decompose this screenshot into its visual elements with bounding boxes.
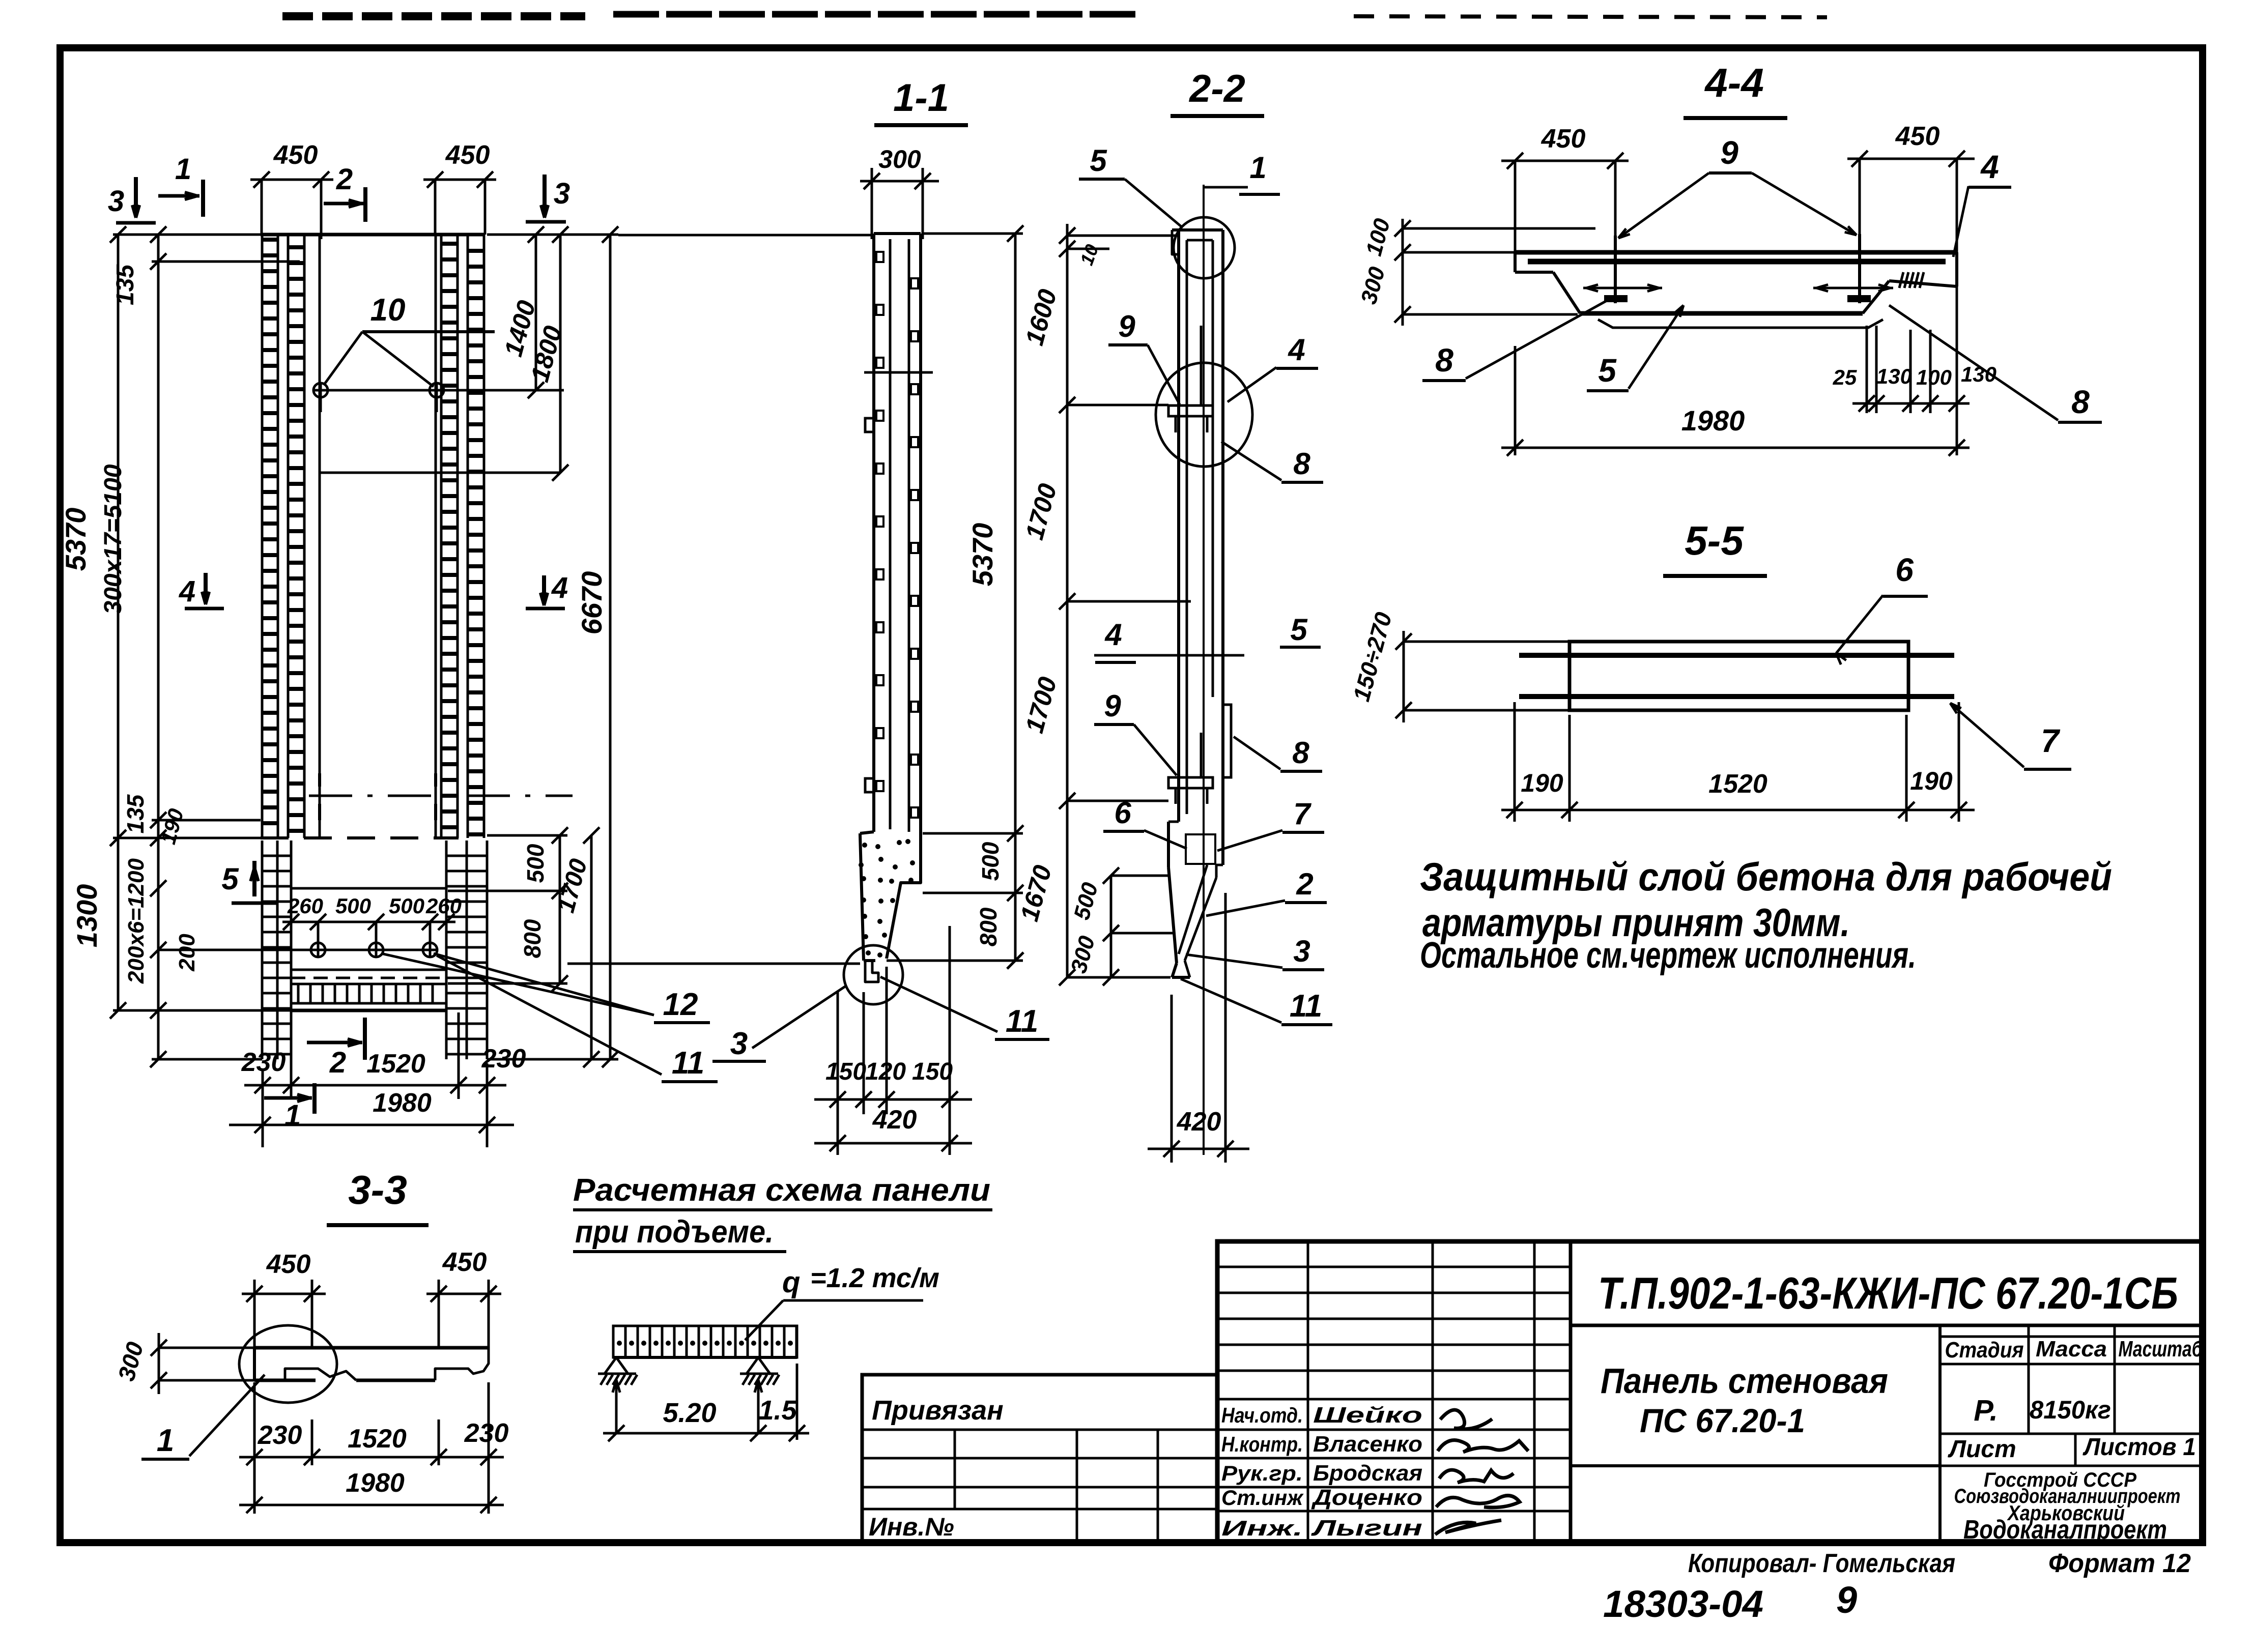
svg-text:5-5: 5-5: [1685, 518, 1744, 563]
svg-text:1520: 1520: [348, 1424, 407, 1454]
svg-text:Инв.№: Инв.№: [869, 1513, 954, 1541]
svg-text:2-2: 2-2: [1188, 67, 1245, 110]
section 4-4: dim 450 right: [1847, 122, 1975, 252]
svg-text:2: 2: [329, 1046, 346, 1079]
svg-text:230: 230: [464, 1418, 509, 1448]
section 3-3: dim 450 left: [242, 1250, 326, 1348]
section 2-2: mid section marks 4/5: [1094, 613, 1321, 662]
svg-text:500: 500: [522, 844, 549, 883]
lifting scheme: load label q=1.2: [745, 1263, 939, 1340]
front view: right dim 500/800: [448, 827, 568, 992]
svg-text:=1.2 тс/м: =1.2 тс/м: [810, 1263, 939, 1293]
svg-text:11: 11: [672, 1046, 704, 1081]
svg-text:5: 5: [221, 862, 239, 896]
svg-text:800: 800: [975, 907, 1002, 946]
svg-text:q: q: [782, 1266, 800, 1299]
title block: stadia values: [1974, 1394, 2111, 1427]
front view: top edge: [261, 233, 485, 237]
section 2-2: right rib bar pos.8: [1223, 705, 1231, 777]
front view: section mark 2 bottom: [307, 1018, 365, 1079]
svg-text:Масштаб: Масштаб: [2119, 1337, 2203, 1361]
svg-text:Привязан: Привязан: [872, 1395, 1004, 1426]
svg-text:230: 230: [241, 1048, 286, 1077]
section 1-1: strip outline: [874, 234, 921, 833]
section 3-3: bar section: [254, 1348, 489, 1380]
svg-text:3: 3: [730, 1026, 748, 1061]
svg-text:4: 4: [1104, 618, 1122, 652]
svg-text:Т.П.902-1-63-КЖИ-ПС 67.20-1СБ: Т.П.902-1-63-КЖИ-ПС 67.20-1СБ: [1598, 1268, 2178, 1318]
front view: right dim 1700: [553, 827, 600, 1067]
svg-text:1: 1: [1249, 151, 1266, 185]
svg-text:Власенко: Власенко: [1313, 1432, 1422, 1457]
section 2-2: label 7 leader: [1217, 797, 1324, 851]
svg-text:100: 100: [1916, 365, 1952, 389]
section 4-4: label 4 leader: [1953, 149, 2011, 257]
lifting scheme: distributed load strip: [613, 1326, 797, 1357]
svg-text:3: 3: [108, 185, 124, 218]
section 2-2: upper detail circle: [1156, 363, 1252, 467]
section 3-3: detail circle: [239, 1325, 337, 1403]
section 3-3: bottom dims 230/1520/230: [239, 1382, 508, 1514]
svg-text:Панель стеновая: Панель стеновая: [1601, 1361, 1888, 1401]
svg-text:25: 25: [1833, 365, 1857, 389]
svg-text:11: 11: [1006, 1004, 1038, 1039]
lifting scheme: dim 5.20/1.5: [603, 1364, 809, 1441]
section 2-2: label 2 leader: [1206, 867, 1327, 916]
svg-text:120: 120: [865, 1058, 906, 1085]
svg-text:1: 1: [175, 153, 191, 186]
svg-text:12: 12: [663, 987, 698, 1022]
section 4-4: dim 1980: [1501, 326, 1970, 456]
lifting scheme: right support: [740, 1357, 779, 1385]
section 2-2: inner dim 500/300: [1066, 867, 1173, 986]
front view: lifting loops pos.10: [313, 383, 564, 412]
section 5-5: label 6 leader: [1836, 552, 1928, 664]
section 5-5: bottom dims 190/1520/190: [1501, 702, 1975, 822]
svg-text:5: 5: [1090, 143, 1107, 178]
svg-text:4-4: 4-4: [1704, 60, 1764, 105]
section 2-2: label 1 top: [1204, 151, 1280, 194]
svg-text:300: 300: [878, 145, 921, 173]
svg-text:Стадия: Стадия: [1945, 1338, 2024, 1363]
section 1-1: dim 5370: [923, 225, 1023, 969]
title block: signature rows: [1217, 1399, 1571, 1511]
svg-text:Листов 1: Листов 1: [2082, 1434, 2196, 1461]
front view: bottom left brick strip: [262, 841, 291, 1059]
svg-text:18303-04: 18303-04: [1603, 1583, 1763, 1625]
svg-text:500: 500: [389, 894, 424, 918]
svg-text:450: 450: [1541, 124, 1586, 154]
svg-text:2: 2: [1296, 867, 1313, 901]
svg-text:300x17=5100: 300x17=5100: [100, 464, 127, 614]
svg-text:260: 260: [287, 894, 323, 918]
section 1-1: extension to front view top: [618, 234, 872, 237]
section 1-1: label 3 leader: [712, 986, 846, 1061]
svg-text:Лыгин: Лыгин: [1311, 1516, 1422, 1541]
svg-text:11: 11: [1290, 989, 1322, 1024]
lifting scheme: title: [573, 1173, 992, 1252]
front view: left dim line 5370/1300: [60, 226, 291, 1019]
svg-text:Водоканалпроект: Водоканалпроект: [1963, 1515, 2167, 1545]
section 5-5: title: [1663, 518, 1767, 576]
front view: right rib ladder D: [468, 235, 484, 838]
svg-text:6670: 6670: [576, 571, 608, 635]
section 5-5: left dim 150-270: [1348, 609, 1570, 722]
svg-text:Шейко: Шейко: [1313, 1403, 1422, 1428]
title block: code cell line: [1571, 1324, 2203, 1327]
section 2-2: lower anchor pos.9: [1168, 733, 1213, 804]
section 4-4: label 9 leaders: [1618, 134, 1857, 238]
svg-text:Формат 12: Формат 12: [2048, 1549, 2191, 1578]
front view: left rib ladder B: [288, 235, 304, 838]
svg-text:500: 500: [977, 842, 1004, 881]
section 4-4: label 8 right leader: [1889, 305, 2102, 422]
svg-text:1520: 1520: [1708, 769, 1767, 799]
section 2-2: lower label 8 leader: [1234, 736, 1322, 771]
svg-text:5.20: 5.20: [663, 1398, 716, 1428]
svg-text:9: 9: [1836, 1579, 1857, 1621]
svg-text:135: 135: [122, 794, 149, 833]
svg-text:500: 500: [335, 894, 371, 918]
svg-text:130: 130: [1876, 364, 1912, 388]
attachment table: outline: [862, 1375, 1217, 1543]
front view: right rib inner edge: [435, 235, 437, 838]
section 1-1: foot: [859, 832, 921, 961]
section 4-4: label 8 left leader: [1422, 298, 1612, 381]
section 2-2: top detail circle: [1174, 217, 1235, 278]
section 1-1: dim 500/800: [887, 825, 1023, 969]
svg-text:Рук.гр.: Рук.гр.: [1221, 1461, 1303, 1485]
svg-text:5: 5: [1598, 352, 1617, 389]
section 3-3: label 1 leader: [141, 1375, 265, 1459]
title block: outer frame: [1217, 1241, 2203, 1543]
svg-text:190: 190: [1521, 769, 1563, 797]
svg-text:8: 8: [1293, 447, 1310, 481]
svg-text:Доценко: Доценко: [1310, 1485, 1422, 1510]
front view: section mark 1 bottom: [264, 1083, 315, 1132]
front view: section 5 cut chain line: [309, 773, 573, 820]
title block: list row: [1940, 1434, 2203, 1466]
front view: bottom right brick strip: [446, 841, 487, 1059]
section 5-5: label 7 leader: [1950, 703, 2071, 769]
svg-text:8150кг: 8150кг: [2030, 1396, 2111, 1424]
svg-text:Защитный слой бетона для ра: Защитный слой бетона для рабочей: [1420, 854, 2112, 899]
title block: stadia header: [1940, 1325, 2203, 1434]
svg-text:130: 130: [1961, 362, 1996, 386]
svg-text:Расчетная схема панели: Расчетная схема панели: [573, 1173, 990, 1208]
section 1-1: label 11 leader: [880, 977, 1049, 1039]
front view: section mark 3 top-left: [108, 177, 156, 223]
svg-text:150: 150: [825, 1058, 866, 1085]
section 4-4: right dims 25/130/100/130: [1833, 286, 1996, 413]
title block: signature texts: [1221, 1403, 1422, 1541]
section 2-2: foot outline: [1168, 705, 1223, 977]
svg-text:450: 450: [273, 140, 318, 170]
section 2-2: upper label 8 leader: [1221, 442, 1323, 482]
section 2-2: panel outline: [1172, 230, 1223, 822]
svg-text:450: 450: [1895, 122, 1940, 151]
front view: section mark 4 right: [526, 571, 568, 608]
front view: dim 450 left: [250, 140, 333, 239]
svg-text:6: 6: [1895, 552, 1914, 588]
section 1-1: bottom dims 150/120/150 and 420: [814, 926, 972, 1155]
section 1-1: left tab lower: [865, 778, 874, 792]
front view: section mark 3 top-right: [526, 175, 570, 222]
front view: left rib ladder A: [262, 235, 278, 838]
front view: right dim 6670: [487, 226, 618, 1067]
section 1-1: boot detail: [865, 961, 878, 982]
front view: bottom dim 1980: [229, 1088, 514, 1133]
section 5-5: bar: [1570, 642, 1908, 710]
front view: left rib inner edge: [319, 235, 321, 838]
svg-text:3: 3: [554, 177, 570, 210]
svg-text:2: 2: [336, 163, 353, 196]
front view: bottom dim 230/1520/230: [241, 1012, 526, 1147]
section 2-2: upper anchor pos.9: [1168, 326, 1213, 432]
svg-text:7: 7: [1293, 797, 1311, 831]
section 4-4: label 5 leader: [1587, 305, 1684, 391]
section 1-1: left tab upper: [865, 418, 874, 432]
section 3-3: dim 450 right: [426, 1248, 501, 1348]
section 2-2: label 6 leader: [1103, 796, 1187, 849]
lifting scheme: reaction arrows: [613, 1380, 762, 1433]
front view: section mark 4 left: [179, 573, 224, 608]
svg-text:9: 9: [1720, 134, 1738, 171]
section 4-4: bar cross-section: [1436, 252, 1957, 328]
front view: base plate: [291, 888, 446, 1010]
svg-text:7: 7: [2041, 722, 2061, 759]
section 2-2: left dim line 10/1600/1700/1700/1670: [1015, 224, 1191, 986]
section 4-4: dim 450 left: [1501, 124, 1629, 254]
svg-text:3-3: 3-3: [348, 1167, 407, 1212]
footer: document number: [1603, 1579, 1857, 1625]
svg-text:Копировал- Гомельская: Копировал- Гомельская: [1688, 1549, 1955, 1578]
svg-text:1: 1: [284, 1099, 301, 1132]
svg-text:200: 200: [175, 934, 199, 972]
svg-text:10: 10: [370, 293, 406, 328]
svg-text:450: 450: [442, 1248, 487, 1277]
front view: section mark 1 top: [158, 153, 203, 217]
svg-text:230: 230: [258, 1421, 302, 1450]
section 1-1: title: [874, 76, 968, 125]
title block: organisation cell: [1954, 1469, 2181, 1545]
svg-text:5370: 5370: [966, 523, 998, 587]
svg-text:Инж.: Инж.: [1221, 1516, 1303, 1540]
section 1-1: dim 300: [860, 145, 939, 239]
title block: upper grid rows: [1217, 1267, 1571, 1371]
svg-text:Остальное см.чертеж исполнен: Остальное см.чертеж исполнения.: [1420, 935, 1916, 976]
front view: joint dashed line: [261, 836, 459, 839]
svg-text:4: 4: [1980, 149, 1999, 185]
svg-text:8: 8: [1292, 736, 1309, 770]
section 4-4: hook bar left pos.9: [1583, 236, 1662, 303]
svg-text:200x6=1200: 200x6=1200: [124, 858, 149, 984]
svg-text:1: 1: [157, 1423, 174, 1458]
section 4-4: rebar mesh pos.4: [1528, 259, 1946, 265]
front view: label 12 leader: [381, 953, 710, 1023]
svg-text:135: 135: [112, 264, 139, 305]
svg-text:ПС 67.20-1: ПС 67.20-1: [1640, 1402, 1805, 1439]
section 3-3: dim 1980: [239, 1468, 504, 1513]
svg-text:4: 4: [1288, 333, 1305, 367]
section 4-4: hook bar right pos.9: [1813, 234, 1893, 303]
front view: inner dim line 135/5100/135: [100, 226, 300, 1067]
section 2-2: upper label 4 leader: [1228, 333, 1318, 402]
section 3-3: title: [327, 1167, 429, 1225]
svg-text:800: 800: [519, 919, 546, 958]
section 4-4: bearing pad hatch right: [1899, 272, 1924, 288]
front view: label 11 leader: [437, 955, 718, 1082]
svg-text:Масса: Масса: [2036, 1337, 2107, 1361]
svg-text:5370: 5370: [60, 508, 92, 571]
svg-text:1300: 1300: [71, 884, 103, 948]
title block: name text: [1601, 1361, 1888, 1439]
section 2-2: label 3 leader: [1186, 934, 1324, 970]
svg-text:3: 3: [1293, 934, 1310, 968]
lifting scheme: beam line: [613, 1356, 797, 1359]
svg-text:1980: 1980: [346, 1468, 405, 1498]
section 4-4: left dims 100/300: [1356, 216, 1595, 326]
section 2-2: centre line 1: [1203, 185, 1205, 1155]
title block: grid columns: [1308, 1241, 1571, 1543]
svg-text:при подъеме.: при подъеме.: [575, 1214, 774, 1250]
front view: right dim 1800: [321, 226, 568, 481]
svg-text:9: 9: [1104, 689, 1121, 723]
svg-text:Бродская: Бродская: [1313, 1461, 1422, 1486]
svg-text:1980: 1980: [373, 1088, 432, 1118]
section 1-1: hatch squares: [876, 252, 918, 818]
svg-text:1520: 1520: [366, 1049, 425, 1079]
svg-text:230: 230: [481, 1044, 526, 1074]
front view: anchor circles pos.12: [158, 922, 438, 958]
front view: dim 260 500 500 260: [282, 894, 462, 930]
svg-text:9: 9: [1118, 309, 1135, 343]
svg-text:Лист: Лист: [1948, 1436, 2016, 1463]
front view: label 10 leader: [324, 293, 495, 387]
section 1-1: detail circle: [844, 945, 903, 1004]
section 2-2: label 5 top leader: [1079, 143, 1182, 227]
svg-text:450: 450: [266, 1250, 311, 1279]
svg-text:Р.: Р.: [1974, 1394, 1998, 1427]
title block: name cell lines: [1571, 1325, 1940, 1543]
section 2-2: upper label 9 leader: [1108, 309, 1180, 404]
front view: section mark 2 top: [324, 163, 365, 222]
svg-text:1980: 1980: [1681, 404, 1745, 437]
section 2-2: label 11 leader: [1181, 979, 1332, 1025]
svg-text:1.5: 1.5: [758, 1395, 797, 1426]
svg-text:4: 4: [179, 575, 195, 608]
front view: right rib ladder C: [441, 235, 458, 838]
section 4-4: title: [1684, 60, 1787, 118]
section 5-5: rebar pos.7: [1519, 694, 1954, 699]
svg-text:Н.контр.: Н.контр.: [1221, 1432, 1303, 1456]
svg-text:8: 8: [2071, 384, 2090, 420]
section 5-5: rebar pos.6: [1519, 653, 1954, 658]
section 1-1: extension to front view bottom: [567, 963, 860, 965]
svg-text:450: 450: [445, 140, 490, 170]
front view: section mark 5: [221, 861, 277, 903]
front view: right dim 1400: [499, 226, 544, 398]
scan artifacts top edge: [282, 14, 1827, 17]
note: protective concrete layer: [1420, 854, 2112, 976]
title block: signatures scrawls: [1435, 1410, 1528, 1534]
svg-text:190: 190: [1910, 767, 1953, 795]
svg-text:Нач.отд.: Нач.отд.: [1221, 1403, 1303, 1427]
svg-text:4: 4: [551, 571, 568, 604]
section 2-2: bottom dim 420: [1148, 893, 1249, 1163]
svg-text:8: 8: [1435, 342, 1453, 379]
lifting scheme: left support: [598, 1357, 637, 1385]
svg-text:1-1: 1-1: [893, 76, 949, 120]
svg-text:150: 150: [912, 1058, 953, 1085]
svg-text:260: 260: [425, 894, 462, 918]
front view: dim 450 right: [423, 140, 496, 235]
section 1-1: joint line: [864, 371, 933, 374]
section 2-2: title: [1171, 67, 1264, 116]
svg-text:420: 420: [872, 1105, 917, 1135]
section 2-2: lower label 9 leader: [1094, 689, 1177, 775]
svg-text:5: 5: [1290, 613, 1308, 647]
svg-text:Ст.инж: Ст.инж: [1221, 1486, 1304, 1510]
svg-text:420: 420: [1177, 1107, 1221, 1137]
section 3-3: left dim 300: [112, 1333, 254, 1394]
